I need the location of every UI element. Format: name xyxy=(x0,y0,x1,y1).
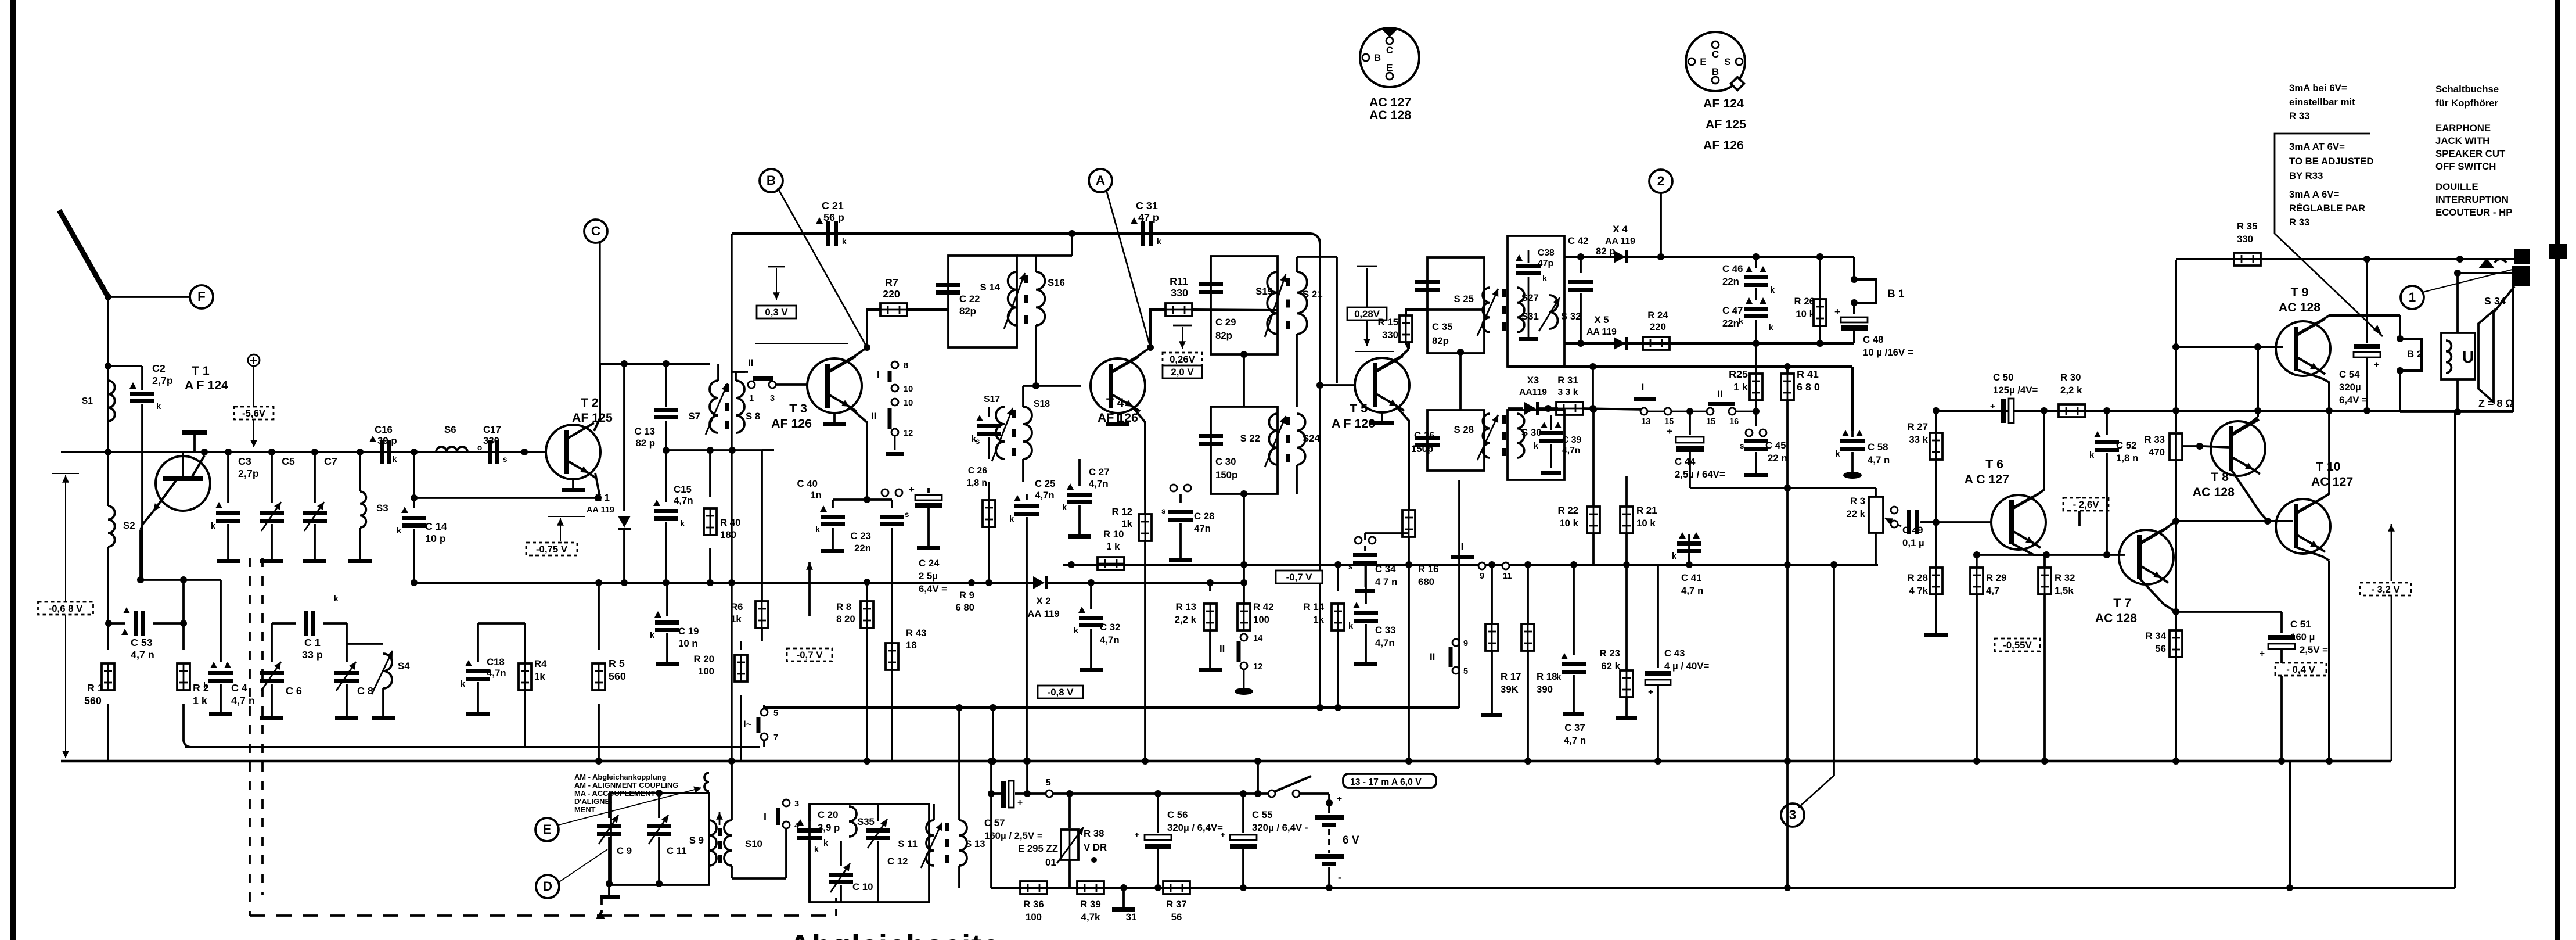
svg-text:S 30: S 30 xyxy=(1521,427,1542,438)
capacitor C1 33p xyxy=(272,594,347,636)
svg-text:II: II xyxy=(1219,643,1225,654)
svg-text:S 28: S 28 xyxy=(1454,424,1474,435)
wire can3 bottom xyxy=(1240,490,1247,584)
transformer S11 S13 xyxy=(898,820,985,868)
resistor R14 1k xyxy=(1332,561,1344,711)
svg-text:13: 13 xyxy=(1641,417,1650,426)
measure -0.55V xyxy=(1995,638,2040,651)
svg-text:S27: S27 xyxy=(1521,292,1539,303)
svg-text:1: 1 xyxy=(2409,290,2416,304)
wire S25 feed xyxy=(1409,308,1484,311)
svg-text:150p: 150p xyxy=(1411,443,1433,454)
coil S30 xyxy=(1517,414,1542,458)
label R31 33k xyxy=(1557,375,1578,397)
pinout circle AF124/125/126 xyxy=(1686,32,1745,91)
svg-text:S 13: S 13 xyxy=(965,838,985,849)
svg-text:C 23: C 23 xyxy=(851,530,871,541)
wire T8 emitter xyxy=(2231,469,2271,525)
svg-text:S3: S3 xyxy=(376,503,388,514)
switch band II xyxy=(732,357,807,403)
svg-text:TO BE ADJUSTED: TO BE ADJUSTED xyxy=(2289,156,2373,167)
transistor T3 xyxy=(807,357,862,426)
label R15 330 xyxy=(1378,317,1398,340)
resistor R26 10k xyxy=(1814,253,1826,347)
svg-text:3: 3 xyxy=(794,799,799,809)
svg-text:T 5: T 5 xyxy=(1350,401,1368,415)
capacitor C8 variable xyxy=(334,623,359,720)
svg-text:4,7n: 4,7n xyxy=(1100,634,1120,645)
svg-text:C 27: C 27 xyxy=(1089,467,1109,478)
wire T7 emitter xyxy=(2139,578,2176,612)
transistor T7 xyxy=(2119,528,2174,584)
label R9 680 xyxy=(955,590,974,613)
svg-text:C: C xyxy=(1712,49,1719,60)
label R23 62k xyxy=(1600,648,1621,672)
svg-text:C 19: C 19 xyxy=(678,626,699,637)
svg-text:R 36: R 36 xyxy=(1023,899,1044,910)
transformer S7 S8 xyxy=(688,381,760,435)
speaker S34 xyxy=(2441,311,2494,415)
svg-text:C 41: C 41 xyxy=(1681,572,1701,583)
capacitor C32 4.7n xyxy=(1074,583,1103,672)
svg-text:8: 8 xyxy=(904,361,908,371)
wire T5 collector xyxy=(1375,343,1409,371)
svg-text:k: k xyxy=(460,680,466,689)
svg-text:k: k xyxy=(1770,286,1775,295)
resistor R29 4.7 xyxy=(1970,555,1983,765)
capacitor C55 electrolytic xyxy=(1220,794,1257,891)
svg-text:R 13: R 13 xyxy=(1176,601,1196,612)
capacitor C16 39p xyxy=(369,424,418,464)
svg-text:2,7p: 2,7p xyxy=(238,468,259,479)
svg-text:C 22: C 22 xyxy=(959,293,980,304)
wire S10 top xyxy=(728,758,735,820)
label C33 4.7n xyxy=(1375,625,1395,648)
transistor T6 xyxy=(1991,493,2046,550)
measure 0.28V xyxy=(1347,266,1394,351)
transistor T1 xyxy=(143,449,210,524)
svg-text:R 22: R 22 xyxy=(1558,505,1578,516)
coil S28 tuned xyxy=(1454,414,1498,460)
svg-text:C 51: C 51 xyxy=(2290,619,2311,630)
svg-text:C2: C2 xyxy=(152,363,166,374)
dashed C9 stub xyxy=(600,898,603,913)
resistor R21 10k xyxy=(1620,476,1633,568)
resistor R27 33k xyxy=(1930,407,1942,526)
svg-text:AC 128: AC 128 xyxy=(2193,485,2235,499)
wire bottom rail riser xyxy=(2286,761,2293,891)
svg-text:k: k xyxy=(156,402,161,411)
svg-text:C 55: C 55 xyxy=(1252,809,1272,820)
label R8 820 xyxy=(836,601,855,625)
svg-text:C 43: C 43 xyxy=(1664,648,1685,659)
label R17 39K xyxy=(1501,671,1521,695)
svg-text:-0,8 V: -0,8 V xyxy=(1048,687,1074,698)
label R40 180 xyxy=(720,517,740,540)
svg-text:15: 15 xyxy=(1706,417,1715,426)
svg-text:+: + xyxy=(2374,360,2379,369)
capacitor C14 xyxy=(397,498,426,586)
svg-text:S1: S1 xyxy=(82,396,93,406)
svg-text:k: k xyxy=(1672,552,1677,561)
svg-text:4,7: 4,7 xyxy=(1986,585,1999,596)
svg-text:5: 5 xyxy=(1046,778,1051,788)
label AF124 AF125 AF126 xyxy=(1703,96,1746,152)
svg-text:R 43: R 43 xyxy=(906,627,926,638)
potentiometer R3 22k xyxy=(1869,488,1901,565)
svg-text:C: C xyxy=(591,224,600,238)
contact 5 supply xyxy=(1046,778,1053,797)
svg-text:330: 330 xyxy=(1382,329,1398,340)
coil S25 tuned xyxy=(1454,288,1498,336)
svg-text:k: k xyxy=(1542,274,1548,284)
wire T2 emitter xyxy=(595,473,602,501)
label X2 AA119 xyxy=(1027,595,1059,619)
svg-text:+: + xyxy=(1337,794,1342,804)
svg-text:R 34: R 34 xyxy=(2146,630,2167,641)
svg-text:R6: R6 xyxy=(731,601,743,612)
wire riser 1316 top xyxy=(763,705,765,708)
svg-text:R 31: R 31 xyxy=(1557,375,1578,386)
capacitor C7 variable xyxy=(303,449,327,563)
svg-text:S: S xyxy=(1724,56,1730,67)
svg-text:100: 100 xyxy=(1026,912,1042,923)
transistor T5 xyxy=(1355,356,1409,425)
capacitor C23 22n xyxy=(880,489,909,761)
transistor T2 xyxy=(546,423,600,492)
note 3mA a 6V french xyxy=(2289,189,2365,228)
svg-text:AA 119: AA 119 xyxy=(587,505,614,515)
wire S21 top xyxy=(1297,257,1337,383)
node C53 junction xyxy=(105,620,112,627)
svg-text:C 52: C 52 xyxy=(2116,440,2136,451)
svg-text:14: 14 xyxy=(1253,634,1263,643)
svg-text:160 µ: 160 µ xyxy=(2290,632,2315,643)
coil S3 xyxy=(348,449,388,563)
capacitor C54 electrolytic xyxy=(2354,256,2380,414)
coil S24 xyxy=(1297,414,1321,465)
svg-text:150p: 150p xyxy=(1215,469,1237,480)
svg-text:k: k xyxy=(1348,622,1354,631)
label X3 AA119 xyxy=(1519,375,1547,397)
svg-text:-0,7 V: -0,7 V xyxy=(1286,572,1313,583)
svg-text:T 3: T 3 xyxy=(789,401,807,415)
svg-text:AC 128: AC 128 xyxy=(1369,108,1411,122)
svg-text:k: k xyxy=(211,522,216,531)
label C10 xyxy=(852,881,873,892)
wire audio supply rail xyxy=(1936,410,2513,412)
svg-text:R 12: R 12 xyxy=(1112,506,1132,517)
plug hook xyxy=(2495,259,2506,263)
capacitor C29 82p xyxy=(1199,282,1236,341)
label C43 4u40V xyxy=(1664,648,1710,672)
svg-text:C 40: C 40 xyxy=(797,478,818,489)
svg-text:X3: X3 xyxy=(1527,375,1539,386)
svg-text:2: 2 xyxy=(1657,174,1664,188)
label C41 4.7n xyxy=(1681,572,1703,596)
svg-text:S 8: S 8 xyxy=(746,411,760,422)
svg-text:9: 9 xyxy=(1480,572,1484,581)
wire mixer gnd drop1 xyxy=(988,582,990,584)
capacitor C41 4.7n xyxy=(1672,532,1701,568)
resistor R35 330 xyxy=(2234,221,2261,266)
dashed gang link left xyxy=(249,558,251,916)
capacitor C50 electrolytic xyxy=(1990,399,2014,423)
svg-text:C 10: C 10 xyxy=(852,881,873,892)
svg-text:SPEAKER CUT: SPEAKER CUT xyxy=(2435,148,2506,159)
svg-text:-0,6 8 V: -0,6 8 V xyxy=(49,603,84,614)
wire C57 riser xyxy=(1024,758,1031,794)
capacitor C4 xyxy=(203,580,233,716)
measure -3.2V xyxy=(2360,524,2411,761)
measure -0.7V IF xyxy=(1276,571,1322,583)
wire S11 top xyxy=(933,804,935,820)
wire S14 bottom to gnd xyxy=(1016,325,1018,347)
wire S10 bottom xyxy=(731,866,733,878)
label C13 82p xyxy=(635,426,655,449)
coil S22 tuned xyxy=(1240,414,1286,467)
svg-text:C 53: C 53 xyxy=(131,637,153,648)
svg-text:S35: S35 xyxy=(857,816,875,827)
svg-text:S31: S31 xyxy=(1521,311,1539,322)
svg-text:C 6: C 6 xyxy=(286,685,302,697)
wire S21 bottom xyxy=(1296,334,1298,407)
svg-text:R 27: R 27 xyxy=(1908,421,1928,432)
wire R9 to X2 xyxy=(988,582,990,583)
svg-text:4,7n: 4,7n xyxy=(487,668,506,679)
switch contacts 10 12 xyxy=(871,399,913,456)
svg-text:+: + xyxy=(1134,831,1139,840)
svg-text:C 34: C 34 xyxy=(1375,564,1396,575)
svg-text:4,7n: 4,7n xyxy=(1562,446,1580,455)
svg-text:k: k xyxy=(680,519,685,529)
svg-text:T 2: T 2 xyxy=(581,396,599,410)
label R34 56 xyxy=(2146,630,2167,654)
label Abgleichseite xyxy=(789,928,1000,940)
svg-text:I: I xyxy=(1461,541,1464,552)
svg-text:R 1: R 1 xyxy=(87,682,103,694)
wire contact down xyxy=(732,828,786,878)
svg-text:C 54: C 54 xyxy=(2339,369,2360,380)
resistor R42 100 xyxy=(1237,601,1273,630)
svg-text:C 4: C 4 xyxy=(231,682,247,694)
svg-text:100: 100 xyxy=(1253,614,1269,625)
svg-text:B 2: B 2 xyxy=(2407,349,2422,360)
resistor R31 33k xyxy=(1556,402,1644,415)
label R6 1k xyxy=(731,601,743,625)
svg-text:220: 220 xyxy=(883,288,900,300)
capacitor C2 xyxy=(108,366,161,580)
svg-text:S 11: S 11 xyxy=(898,838,918,849)
svg-text:4 7 n: 4 7 n xyxy=(1375,576,1397,587)
label T4 AF126 xyxy=(1098,396,1138,425)
svg-text:0,26V: 0,26V xyxy=(1170,354,1196,365)
wire T5 base xyxy=(1323,384,1354,386)
wire T9 base line xyxy=(2176,346,2283,348)
label 13-17mA box xyxy=(1343,774,1436,788)
wire antenna down xyxy=(105,363,111,455)
svg-text:C 12: C 12 xyxy=(887,856,908,867)
resistor R36 box xyxy=(1020,881,1047,923)
svg-text:k: k xyxy=(397,526,402,536)
label T10 AC127 text xyxy=(2311,460,2353,489)
svg-text:10 k: 10 k xyxy=(1559,518,1578,529)
svg-text:I: I xyxy=(877,369,880,380)
svg-text:3: 3 xyxy=(1789,808,1796,822)
svg-text:A F 126: A F 126 xyxy=(1332,417,1375,430)
diode X1 AA119 xyxy=(618,364,631,586)
svg-text:2,0 V: 2,0 V xyxy=(1171,367,1194,378)
svg-text:12: 12 xyxy=(904,429,913,438)
label C28 47n xyxy=(1194,511,1214,534)
wire T2 collector top xyxy=(600,360,710,367)
label R27 33k xyxy=(1908,421,1929,445)
label C8 xyxy=(357,685,373,697)
svg-text:82 p: 82 p xyxy=(1596,246,1616,257)
svg-text:k: k xyxy=(814,845,819,853)
svg-text:3 3 k: 3 3 k xyxy=(1558,388,1578,397)
svg-text:320µ / 6,4V -: 320µ / 6,4V - xyxy=(1252,822,1308,833)
capacitor C15 4.7n xyxy=(653,450,685,586)
svg-text:ECOUTEUR - HP: ECOUTEUR - HP xyxy=(2435,207,2512,218)
label C11 xyxy=(667,845,687,856)
label C2 2.7p xyxy=(152,363,173,386)
T1 shield ground xyxy=(182,430,207,452)
coil S16 xyxy=(1036,272,1065,325)
svg-text:R 20: R 20 xyxy=(694,654,714,665)
svg-text:10 k: 10 k xyxy=(1636,518,1656,529)
svg-text:1k: 1k xyxy=(534,671,545,682)
svg-text:C3: C3 xyxy=(238,455,251,467)
svg-text:11: 11 xyxy=(1503,572,1512,581)
capacitor C52 1.8n xyxy=(2089,411,2119,555)
svg-text:AC 128: AC 128 xyxy=(2279,300,2320,314)
svg-text:B: B xyxy=(767,173,776,188)
capacitor C28 47n xyxy=(1161,485,1193,562)
svg-text:S 14: S 14 xyxy=(980,282,1000,293)
wire AGC rail right riser xyxy=(1458,480,1460,708)
label C15 4.7n xyxy=(674,484,693,506)
svg-text:R 28: R 28 xyxy=(1908,572,1928,583)
switch contacts 14 12 xyxy=(1219,634,1263,695)
svg-text:Schaltbuchse: Schaltbuchse xyxy=(2435,84,2499,95)
svg-text:2,2 k: 2,2 k xyxy=(1175,614,1197,625)
label C38 47p xyxy=(1538,248,1555,268)
label C3 2.7p xyxy=(238,455,259,479)
terminal 1 xyxy=(2401,269,2514,309)
label C45 22n xyxy=(1765,440,1787,464)
X2 detector line xyxy=(968,576,1247,605)
svg-text:B: B xyxy=(1712,66,1719,77)
svg-text:1k: 1k xyxy=(1313,614,1324,625)
coil S14 tuned xyxy=(980,272,1026,329)
svg-text:C: C xyxy=(1386,45,1393,56)
svg-text:X 5: X 5 xyxy=(1594,314,1609,325)
svg-text:220: 220 xyxy=(1650,321,1666,332)
wire detector top rail xyxy=(1564,256,1854,258)
svg-text:+: + xyxy=(2260,649,2265,659)
wire det out corner xyxy=(1851,367,1854,431)
wire AGC drop to T5 base xyxy=(1316,244,1323,711)
resistor R5 560 xyxy=(592,579,605,765)
label C12 xyxy=(887,856,908,867)
svg-text:2,7p: 2,7p xyxy=(152,375,173,386)
svg-text:7: 7 xyxy=(773,733,778,742)
wire supply drop 1260 xyxy=(728,234,735,761)
label T9 AC128 xyxy=(2279,285,2320,314)
svg-text:C 25: C 25 xyxy=(1035,478,1055,489)
svg-text:k: k xyxy=(2089,451,2095,460)
wire speaker bottom rail xyxy=(2400,411,2513,413)
svg-text:S6: S6 xyxy=(444,424,456,435)
svg-text:C 33: C 33 xyxy=(1375,625,1395,636)
svg-text:R 33: R 33 xyxy=(2145,434,2165,445)
resistor R43 18 xyxy=(886,643,898,670)
svg-text:k: k xyxy=(334,594,339,603)
capacitor C11 variable xyxy=(647,790,671,887)
label R32 1.5k xyxy=(2055,572,2075,596)
wire AGC rail xyxy=(764,706,1459,709)
wire T6 emitter xyxy=(1973,543,2125,558)
svg-text:R7: R7 xyxy=(885,277,898,288)
measure -5.6V xyxy=(234,367,274,447)
svg-text:R 35: R 35 xyxy=(2237,221,2257,232)
earphone jack B2 xyxy=(2397,335,2422,412)
resistor R25 1k xyxy=(1750,361,1762,415)
coil S21 xyxy=(1297,272,1323,334)
resistor R16 680 xyxy=(1402,500,1415,765)
label R12 1k xyxy=(1112,506,1133,529)
coil S2 xyxy=(108,452,135,623)
measure -2.6V box xyxy=(2063,498,2109,511)
svg-text:16: 16 xyxy=(1729,417,1739,426)
pointer B line xyxy=(778,188,867,347)
label C20 3.9p xyxy=(818,809,840,833)
label R14 1k xyxy=(1304,601,1325,625)
svg-text:S19: S19 xyxy=(1255,286,1273,297)
svg-text:6 80: 6 80 xyxy=(955,602,974,613)
power switch xyxy=(1268,776,1329,797)
label C25 4.7n xyxy=(1035,478,1055,501)
wire T6 base line xyxy=(1921,521,1991,523)
svg-text:12: 12 xyxy=(1253,662,1262,672)
svg-text:01: 01 xyxy=(1045,857,1056,868)
label C24 2.5u xyxy=(919,558,947,594)
svg-text:X 4: X 4 xyxy=(1613,224,1628,235)
switch II 15 16 xyxy=(1664,389,1756,426)
label C55 320u xyxy=(1252,809,1308,833)
svg-text:680: 680 xyxy=(1418,576,1434,587)
note Schaltbuchse german xyxy=(2435,84,2499,109)
label R7 220 xyxy=(883,277,900,300)
svg-text:s: s xyxy=(1740,442,1744,450)
svg-text:II: II xyxy=(871,411,876,422)
svg-text:T 8: T 8 xyxy=(2211,470,2229,484)
svg-text:4,7n: 4,7n xyxy=(1375,637,1395,648)
label R41 680 xyxy=(1797,368,1820,393)
IF can core 3 xyxy=(1286,417,1290,462)
svg-text:R 14: R 14 xyxy=(1304,601,1325,612)
svg-text:E 295 ZZ: E 295 ZZ xyxy=(1018,843,1058,854)
svg-text:k: k xyxy=(815,525,821,534)
capacitor C33 4.7n xyxy=(1348,565,1378,666)
svg-text:C 36: C 36 xyxy=(1414,430,1434,441)
svg-text:470: 470 xyxy=(2149,447,2165,458)
label C23 22n xyxy=(851,530,871,554)
svg-text:AA 119: AA 119 xyxy=(1605,236,1635,246)
svg-text:22 k: 22 k xyxy=(1846,508,1865,519)
svg-text:S7: S7 xyxy=(688,411,700,422)
